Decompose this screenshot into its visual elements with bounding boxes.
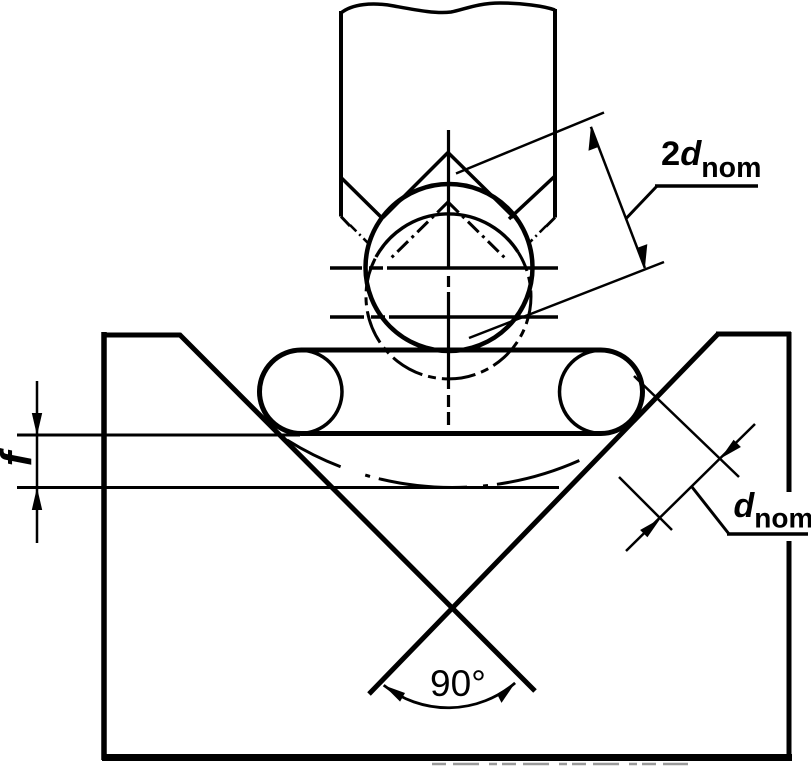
f extension line lower [17,486,559,489]
d_nom dimension line [626,424,755,551]
v-block left V face [179,334,535,691]
scanner noise marks [432,763,688,766]
v-block top-left edge [102,333,181,338]
gauge strip (stadium outline) [260,350,643,434]
v-block right V face [369,334,718,694]
90 degree arc [384,683,515,708]
v-block top-right edge [716,332,791,337]
horizontal centerline lower [330,315,558,318]
2d_nom extension line upper [456,113,604,174]
2d_nom underline [655,184,758,188]
phantom cone tip right (dash-dot) [448,202,505,258]
svg-text:90°: 90° [430,663,486,704]
spindle left bottom corner [341,217,350,227]
cone tip right face [448,153,514,218]
2d_nom extension line lower [469,262,664,338]
90 arc left arrow [384,685,405,701]
spindle right bottom corner [546,218,555,227]
d_nom leader [692,487,729,534]
spindle right hidden edge (dash-dot) [528,226,546,244]
2d_nom arrow upper [589,127,599,151]
spindle wavy break line (top) [341,3,555,13]
d_nom arrow lower [640,519,660,538]
ball (upper position) [366,184,533,351]
spindle right edge [553,9,557,218]
v-block right edge upper [787,332,792,492]
2d_nom dimension line [591,127,645,268]
f extension line upper [17,434,300,437]
f arrow upper [32,413,42,436]
vertical centerline [447,130,450,425]
spindle left inner chamfer [342,178,384,219]
f arrow lower [32,488,42,511]
ring bore arc (dash-dot) [287,440,593,488]
90 arc right arrow [497,683,515,703]
cone tip left face [383,153,448,218]
2d_nom arrow lower [637,244,647,268]
d_nom underline [727,532,808,536]
2d_nom leader [626,186,657,219]
spindle left edge [339,11,343,217]
spindle left hidden edge (dash-dot) [350,225,370,245]
d_nom extension line lower [619,477,672,530]
v-block bottom edge [102,754,792,761]
v-block left edge [101,332,107,760]
phantom cone tip left (dash-dot) [390,202,448,259]
v-block right edge lower [787,541,792,760]
d_nom arrow upper [721,440,741,459]
left wire circle [259,350,342,433]
right wire circle [560,350,643,433]
spindle right inner chamfer [509,176,555,219]
ball lower position (dash-dot circle) [376,214,518,257]
horizontal centerline upper [330,266,558,269]
d_nom extension line upper [634,376,739,477]
f dimension line [36,381,39,543]
